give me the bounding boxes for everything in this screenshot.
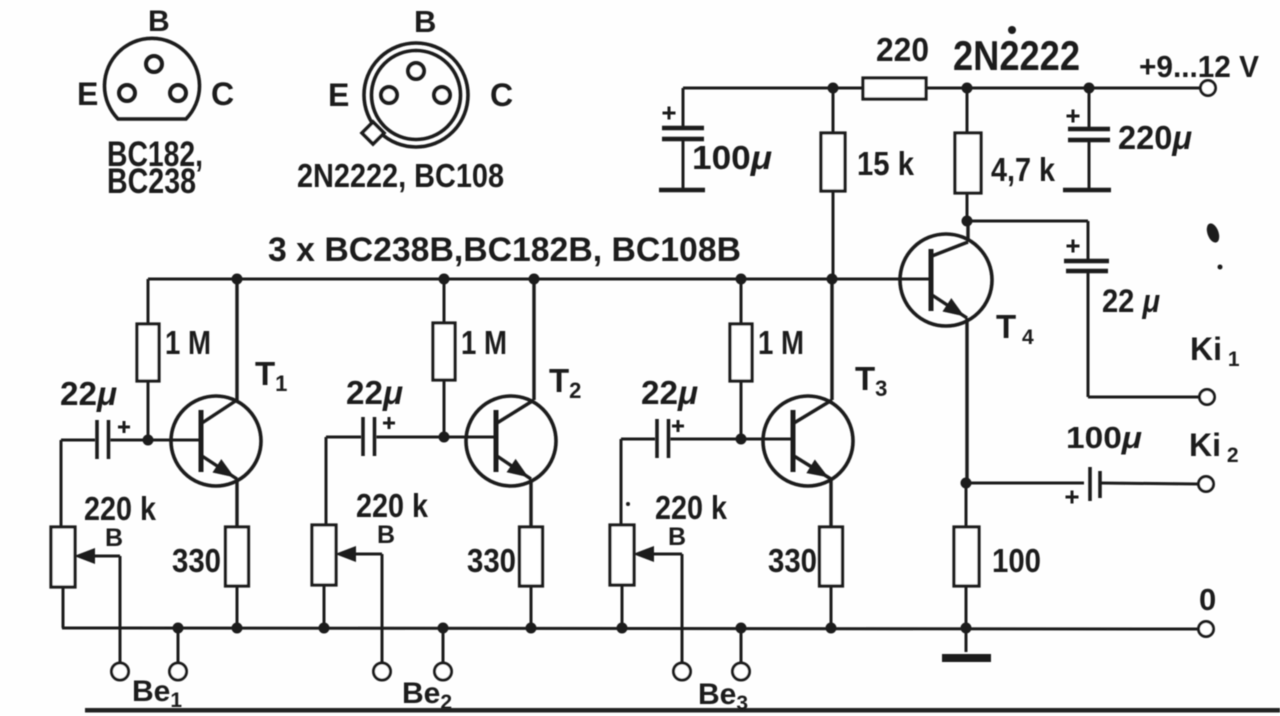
svg-text:220 k: 220 k	[84, 490, 157, 527]
svg-text:0: 0	[1199, 582, 1216, 617]
svg-text:C: C	[490, 77, 513, 113]
svg-text:22μ: 22μ	[346, 374, 403, 411]
svg-text:220 k: 220 k	[655, 489, 728, 526]
svg-text:T2: T2	[549, 362, 581, 403]
svg-text:3 x BC238B,BC182B, BC108B: 3 x BC238B,BC182B, BC108B	[268, 231, 741, 269]
svg-text:100: 100	[992, 542, 1041, 579]
svg-text:330: 330	[467, 542, 516, 579]
svg-text:E: E	[77, 76, 98, 112]
svg-text:4,7 k: 4,7 k	[991, 151, 1056, 188]
svg-text:Ki 2: Ki 2	[1189, 427, 1239, 467]
svg-text:E: E	[328, 77, 349, 113]
svg-text:2N2222, BC108: 2N2222, BC108	[297, 158, 504, 195]
svg-text:C: C	[211, 76, 234, 112]
svg-text:1 M: 1 M	[165, 324, 211, 361]
svg-text:100μ: 100μ	[1066, 420, 1142, 455]
svg-text:B: B	[148, 5, 170, 38]
svg-text:2N2222: 2N2222	[953, 32, 1080, 79]
svg-text:330: 330	[768, 542, 817, 579]
svg-text:22 μ: 22 μ	[1102, 283, 1160, 319]
svg-text:+9...12 V: +9...12 V	[1139, 49, 1259, 84]
svg-text:1 M: 1 M	[461, 324, 507, 361]
svg-text:22μ: 22μ	[60, 375, 117, 412]
svg-text:BC238: BC238	[107, 162, 196, 201]
svg-text:B: B	[105, 524, 123, 552]
svg-text:15 k: 15 k	[857, 145, 915, 182]
svg-text:Be2: Be2	[402, 677, 452, 714]
svg-text:330: 330	[172, 542, 221, 579]
svg-text:T3: T3	[855, 360, 887, 401]
svg-text:22μ: 22μ	[641, 374, 698, 411]
svg-text:220: 220	[876, 31, 929, 68]
svg-text:B: B	[668, 523, 686, 551]
svg-text:B: B	[414, 4, 436, 39]
svg-text:220μ: 220μ	[1118, 119, 1192, 156]
svg-text:100μ: 100μ	[692, 139, 772, 176]
svg-text:Ki 1: Ki 1	[1190, 331, 1240, 371]
svg-text:B: B	[377, 521, 395, 549]
svg-text:1 M: 1 M	[758, 324, 804, 361]
svg-text:220 k: 220 k	[356, 487, 429, 524]
svg-text:Be3: Be3	[698, 678, 748, 715]
svg-text:T1: T1	[255, 355, 287, 396]
svg-text:T 4: T 4	[996, 308, 1034, 349]
